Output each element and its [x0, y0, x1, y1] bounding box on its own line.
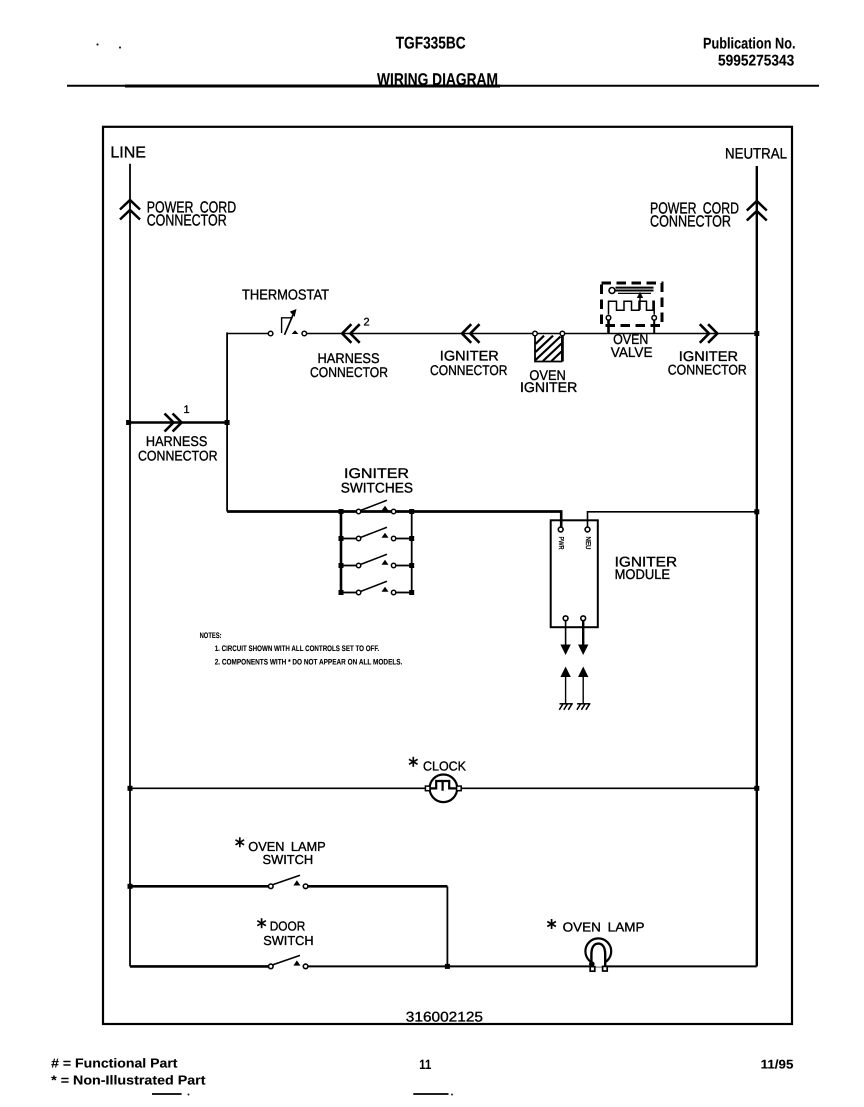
svg-text:OVEN LAMP: OVEN LAMP: [563, 920, 645, 935]
svg-text:IGNITER: IGNITER: [520, 379, 577, 395]
svg-text:CONNECTOR: CONNECTOR: [147, 213, 227, 230]
svg-text:Publication No.: Publication No.: [703, 36, 796, 53]
ground lead 2 arrow: [578, 667, 588, 704]
oven igniter symbol: [533, 331, 565, 361]
svg-text:1: 1: [184, 404, 190, 416]
footer bar left: [152, 1093, 182, 1095]
junction switch4 left: [339, 590, 344, 595]
wire LINE vertical bus: [129, 164, 131, 967]
oven lamp switch symbol: [269, 875, 308, 888]
svg-text:CLOCK: CLOCK: [423, 758, 466, 773]
svg-text:NEU: NEU: [584, 537, 591, 550]
power cord connector left symbol: [120, 200, 140, 220]
svg-text:316002125: 316002125: [406, 1009, 483, 1025]
svg-text:# = Functional Part: # = Functional Part: [51, 1056, 178, 1071]
wire module NEU riser and run to neutral: [588, 512, 757, 529]
igniter switch 2: [343, 527, 410, 540]
oven valve symbol: [602, 283, 663, 334]
junction clock left: [128, 786, 133, 791]
wire igniter lead 2 with connector arrow: [578, 621, 588, 655]
chassis ground 2: [577, 704, 591, 710]
oven lamp functional mark: [547, 919, 556, 929]
harness connector 1 symbol: [165, 414, 182, 432]
wire harness connector 1 run: [129, 421, 228, 424]
oven lamp switch functional mark: [236, 837, 245, 847]
svg-text:NOTES:: NOTES:: [200, 631, 222, 640]
igniter module bottom pin 2: [581, 616, 586, 621]
wire door switch left: [130, 965, 268, 968]
igniter connector right symbol: [700, 324, 718, 343]
svg-text:DOOR: DOOR: [270, 919, 306, 934]
header rule: [67, 85, 819, 87]
wire main top run right of thermostat: [307, 333, 757, 335]
igniter switch 3: [343, 554, 410, 567]
junction neutral at module run: [754, 509, 759, 514]
wire igniter switches left bus: [340, 512, 343, 593]
harness connector 2 symbol: [342, 324, 360, 343]
svg-text:CONNECTOR: CONNECTOR: [668, 362, 747, 378]
igniter module body: [551, 520, 598, 627]
igniter switch 4: [343, 581, 410, 594]
wire igniter switches right bus: [411, 512, 413, 593]
clock symbol: [425, 775, 461, 803]
junction switch3 right: [409, 563, 414, 568]
clock functional mark: [409, 757, 418, 767]
igniter module pin NEU: [585, 527, 590, 532]
oven lamp symbol: [585, 938, 611, 971]
wire door switch right run to neutral: [308, 965, 757, 967]
junction switch3 left: [339, 563, 344, 568]
svg-text:2. COMPONENTS WITH * DO NOT AP: 2. COMPONENTS WITH * DO NOT APPEAR ON AL…: [215, 657, 403, 666]
svg-text:TGF335BC: TGF335BC: [396, 34, 466, 53]
junction neutral at top run: [754, 331, 759, 336]
power cord connector right symbol: [747, 201, 767, 221]
chassis ground 1: [559, 704, 573, 710]
junction switch4 right: [409, 590, 414, 595]
junction switch2 left: [339, 536, 344, 541]
wire oven lamp switch left: [130, 885, 268, 888]
svg-text:CONNECTOR: CONNECTOR: [650, 213, 731, 230]
svg-text:5995275343: 5995275343: [718, 53, 795, 70]
footer bar center dot: [451, 1094, 453, 1096]
junction harness1 left: [126, 420, 131, 425]
svg-text:CONNECTOR: CONNECTOR: [310, 364, 388, 380]
svg-text:11/95: 11/95: [761, 1058, 794, 1072]
svg-text:THERMOSTAT: THERMOSTAT: [242, 288, 329, 304]
svg-text:SWITCHES: SWITCHES: [341, 479, 413, 495]
door switch functional mark: [257, 918, 266, 928]
svg-text:PWR: PWR: [557, 537, 564, 550]
junction switch1 right: [409, 509, 414, 514]
diagram border: [103, 127, 792, 1024]
door switch symbol: [269, 955, 308, 968]
wire switches feed: [227, 510, 561, 513]
wire clock run left: [130, 787, 426, 789]
igniter connector left symbol: [462, 324, 480, 343]
wire igniter lead 1 with connector arrow: [560, 621, 570, 655]
page speck 2: [119, 46, 121, 48]
junction harness1 right: [225, 420, 230, 425]
thermostat symbol: [268, 309, 306, 336]
svg-text:VALVE: VALVE: [611, 344, 653, 360]
igniter module pin PWR: [558, 527, 563, 532]
wire riser from harness junction to top run and down to switches: [226, 332, 228, 511]
page speck 1: [96, 43, 98, 45]
wire drop from lamp switch to door switch run: [446, 886, 448, 966]
svg-text:SWITCH: SWITCH: [263, 933, 313, 948]
wire clock run right: [461, 787, 757, 789]
junction switch2 right: [409, 536, 414, 541]
svg-text:SWITCH: SWITCH: [263, 852, 314, 867]
svg-text:2: 2: [364, 316, 370, 328]
wire oven lamp switch right: [308, 885, 448, 888]
svg-text:NEUTRAL: NEUTRAL: [725, 146, 787, 163]
junction switch1 left: [339, 509, 344, 514]
igniter switch 1: [343, 500, 410, 513]
svg-text:1. CIRCUIT SHOWN WITH ALL CONT: 1. CIRCUIT SHOWN WITH ALL CONTROLS SET T…: [215, 644, 380, 653]
junction lamp switch left: [128, 884, 133, 889]
wire NEUTRAL vertical bus: [756, 166, 758, 966]
junction clock right: [754, 786, 759, 791]
wire module PWR drop: [560, 510, 563, 527]
svg-text:MODULE: MODULE: [615, 566, 671, 582]
svg-text:11: 11: [419, 1057, 431, 1072]
ground lead 1 arrow: [560, 667, 570, 704]
footer bar center: [413, 1093, 448, 1095]
footer bar left dot: [188, 1094, 190, 1096]
svg-text:* = Non-Illustrated Part: * = Non-Illustrated Part: [51, 1073, 206, 1088]
igniter module bottom pin 1: [563, 616, 568, 621]
svg-text:CONNECTOR: CONNECTOR: [430, 362, 508, 378]
wire main top run left of thermostat: [227, 333, 268, 335]
junction door run and drop: [445, 964, 450, 969]
svg-text:CONNECTOR: CONNECTOR: [138, 448, 218, 464]
svg-text:LINE: LINE: [110, 145, 146, 162]
